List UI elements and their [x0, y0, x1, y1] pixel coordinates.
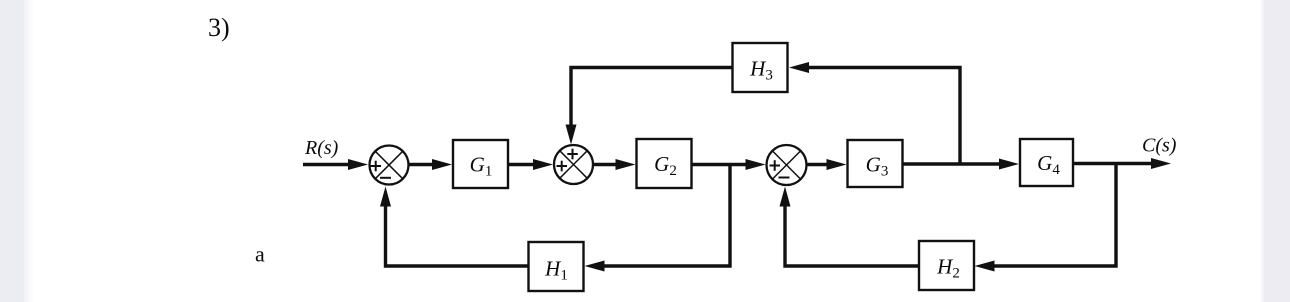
- wire: branch after G2 down and left into H1: [599, 165, 730, 267]
- wire: R(s) input into summing junction S1: [303, 163, 352, 166]
- summing junction S1 (circle with X, + left, - bottom): [370, 146, 409, 185]
- plus sign at S2 left input: [557, 161, 568, 172]
- wire: tap after G3 up and left into H3: [804, 68, 960, 165]
- right gray margin strip: [1265, 0, 1290, 302]
- block G4: [1020, 139, 1073, 186]
- arrowhead into G2: [616, 159, 636, 170]
- arrowhead into S2: [533, 159, 553, 170]
- wire: S1 to G1: [409, 163, 438, 166]
- block H2: [919, 241, 974, 290]
- wire: branch after G4 down and left into H2: [989, 164, 1116, 267]
- svg-text:R(s): R(s): [304, 137, 339, 159]
- block H3: [733, 43, 788, 92]
- arrowhead into G4: [999, 159, 1019, 170]
- wire: G3 to G4 (with tap node to H3): [903, 162, 1005, 165]
- arrowhead up into S1: [380, 187, 391, 207]
- plus sign at S2 top input: [567, 149, 578, 160]
- block H1: [529, 242, 584, 291]
- minus sign at S1 bottom input: [380, 177, 391, 179]
- block G1: [453, 140, 508, 188]
- wire: G1 to S2: [508, 163, 538, 166]
- left gray margin strip: [0, 0, 24, 302]
- minus sign at S3 bottom input: [779, 177, 790, 179]
- arrowhead into H1 right side: [585, 261, 605, 272]
- arrowhead into S3: [746, 159, 766, 170]
- arrowhead down into S2: [566, 125, 577, 145]
- arrowhead into H3 right side: [789, 62, 809, 73]
- summing junction S3 (circle with X, + left, - bottom): [767, 145, 807, 185]
- arrowhead into G3: [827, 159, 847, 170]
- plus sign at S1 left input: [371, 161, 382, 172]
- wire: S2 to G2: [593, 163, 621, 166]
- summing junction S2 (circle with X, + left, + top): [554, 145, 593, 184]
- arrowhead into S1: [348, 159, 368, 170]
- block G3: [848, 140, 903, 187]
- svg-text:3): 3): [208, 13, 230, 42]
- arrowhead up into S3: [780, 187, 791, 207]
- wire: H1 output left then up into S1 bottom: [386, 200, 529, 266]
- wire: G4 to C(s) output (with branch node to H2): [1073, 162, 1156, 165]
- block G2: [637, 139, 692, 188]
- output arrowhead at C(s): [1151, 158, 1171, 169]
- wire: H3 output left then down into S2 top: [571, 68, 733, 132]
- arrowhead into H2 right side: [975, 261, 995, 272]
- wire: S3 to G3: [807, 163, 833, 166]
- arrowhead into G1: [432, 159, 452, 170]
- wire: H2 output left then up into S3 bottom: [785, 200, 919, 266]
- svg-text:C(s): C(s): [1142, 135, 1177, 157]
- svg-text:a: a: [255, 242, 265, 267]
- wire: G2 to S3 (with branch node to H1): [692, 163, 752, 166]
- plus sign at S3 left input: [770, 160, 781, 171]
